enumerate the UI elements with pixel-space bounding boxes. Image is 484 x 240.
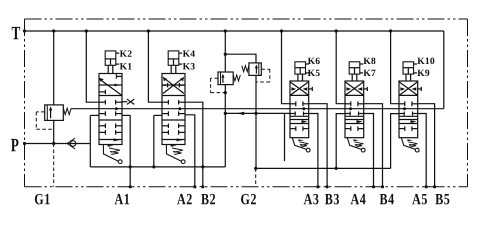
node T junction x=53.7 bbox=[52, 29, 55, 32]
port label A2 bbox=[177, 194, 192, 204]
node T junction x=24.5 bbox=[23, 29, 26, 32]
spring of RV1 bbox=[63, 108, 71, 114]
return spring bbox=[407, 139, 413, 141]
G2 drain (dashed) bbox=[255, 168, 257, 186]
node T junction x=336.2 bbox=[335, 29, 338, 32]
solenoid actuator (K2/K1) bbox=[105, 51, 116, 65]
label K9 bbox=[417, 70, 429, 76]
drain wire section 5 (closes return gallery) bbox=[391, 114, 399, 169]
label K6 bbox=[308, 58, 320, 64]
return spring bbox=[353, 139, 359, 141]
manual lever with roller bbox=[347, 138, 361, 150]
T return drop right end bbox=[443, 31, 445, 109]
relief valve RV2 (port relief, left) bbox=[218, 72, 233, 85]
wire T drop to valve 1 bbox=[86, 31, 99, 102]
label K8 bbox=[363, 58, 375, 64]
check valve (inlet) bbox=[67, 138, 75, 144]
plugged port symbol (x) at valve 1 bbox=[122, 101, 127, 103]
pilot line (dashed) of RV2 bbox=[211, 77, 218, 79]
B5 work-port riser bbox=[418, 104, 435, 187]
wire RV3 down to G2 gallery bbox=[255, 75, 257, 168]
return spring bbox=[171, 145, 177, 147]
port label B3 bbox=[325, 194, 339, 204]
valve body bbox=[399, 81, 418, 138]
subplate box section 1 bbox=[90, 114, 99, 116]
gallery line B (feed to section 3) bbox=[225, 112, 290, 114]
label K7 bbox=[363, 70, 375, 76]
wire RV2 down to return gallery bbox=[224, 85, 226, 167]
valve body section 1 bbox=[99, 74, 122, 145]
node T junction x=225.3 bbox=[224, 29, 227, 32]
B4 work-port riser bbox=[364, 104, 383, 187]
manual lever with roller bbox=[166, 145, 181, 162]
relief valve RV1 (main, at P) bbox=[45, 105, 64, 121]
label K2 bbox=[120, 50, 132, 56]
enclosure border (dash-dot) bbox=[25, 18, 468, 20]
spool position: single flow arrow bbox=[100, 79, 123, 95]
return spring bbox=[108, 145, 114, 147]
node on gallery A bbox=[178, 107, 181, 110]
P supply line bbox=[25, 143, 91, 145]
wire T drop x=225.3 through relief RV2 bbox=[224, 31, 226, 72]
port label A3 bbox=[304, 194, 319, 204]
T supply line bbox=[25, 30, 444, 32]
spool position: crossed arrows bbox=[345, 82, 364, 96]
return gallery left (under sections 1-2) bbox=[90, 166, 225, 168]
wire T drop to valve 2 bbox=[148, 31, 162, 102]
node RV2 pilot junction bbox=[224, 91, 227, 94]
bypass flow wedge bbox=[357, 120, 363, 123]
label K1 bbox=[120, 63, 132, 69]
label K3 bbox=[183, 63, 195, 69]
port label P bbox=[11, 139, 18, 151]
node T junction x=148.4 bbox=[147, 29, 150, 32]
B2 work-port riser bbox=[185, 102, 203, 187]
A3 work-port riser bbox=[309, 114, 318, 187]
node T junction x=281.5 bbox=[280, 29, 283, 32]
node P/relief junction bbox=[52, 142, 55, 145]
port label A4 bbox=[351, 194, 366, 204]
label K5 bbox=[308, 70, 320, 76]
port label B5 bbox=[435, 194, 449, 204]
spool position: crossed arrows bbox=[290, 82, 309, 96]
pilot line (dashed) of RV1 bbox=[36, 111, 44, 113]
port label G1 bbox=[35, 194, 50, 204]
solenoid actuator (K8/K7) bbox=[349, 62, 360, 74]
spring of RV2 bbox=[233, 75, 240, 81]
drain line to G1 (dashed) bbox=[53, 144, 55, 187]
B3 work-port riser bbox=[309, 104, 327, 187]
port label A1 bbox=[115, 194, 130, 204]
node on gallery A bbox=[403, 107, 406, 110]
bypass flow wedge bbox=[302, 120, 308, 123]
subplate box section 2 bbox=[154, 114, 162, 116]
bypass passage with flow wedge bbox=[177, 138, 183, 141]
valve body bbox=[345, 81, 364, 138]
port label G2 bbox=[241, 194, 256, 204]
node on gallery A bbox=[115, 107, 118, 110]
node jumper junction bbox=[224, 53, 227, 56]
valve body section 2 bbox=[162, 74, 185, 145]
port label B2 bbox=[201, 194, 215, 204]
solenoid actuator (K10/K9) bbox=[403, 62, 414, 74]
node T junction x=390.6 bbox=[389, 29, 392, 32]
closed ports, neutral position bbox=[162, 101, 168, 103]
wire T drop section 4 bbox=[336, 31, 345, 104]
solenoid actuator (K6/K5) bbox=[295, 62, 306, 74]
port label A5 bbox=[412, 194, 427, 204]
manual lever with roller bbox=[401, 138, 415, 150]
wire RV1 to P bbox=[53, 120, 55, 143]
relief valve RV3 (port relief, right) bbox=[249, 63, 261, 76]
manual lever with roller bbox=[292, 138, 306, 150]
wire T to RV1 bbox=[53, 31, 55, 105]
port label T bbox=[12, 27, 20, 39]
A4 work-port riser bbox=[364, 114, 374, 187]
solenoid actuator (K4/K3) bbox=[168, 51, 179, 65]
jumper wire to RV3 bbox=[225, 54, 256, 63]
A1 work-port riser bbox=[129, 115, 131, 186]
section 3 drain stub bbox=[284, 113, 286, 161]
closed ports bbox=[290, 103, 296, 105]
closed ports bbox=[399, 103, 405, 105]
gallery line A (bypass channel) bbox=[71, 108, 444, 110]
A5 work-port riser bbox=[418, 114, 427, 187]
label K4 bbox=[183, 50, 195, 56]
closed ports, neutral position bbox=[99, 101, 105, 103]
label K10 bbox=[417, 58, 434, 64]
wire T drop section 3 bbox=[282, 31, 291, 104]
closed ports bbox=[345, 103, 351, 105]
bypass flow wedge bbox=[411, 120, 417, 123]
bypass passage with flow wedge bbox=[114, 138, 120, 141]
drain wire section 4 bbox=[336, 114, 345, 168]
wire T drop section 5 bbox=[391, 31, 399, 104]
node T junction x=86.3 bbox=[85, 29, 88, 32]
pilot line (dashed) of RV3 bbox=[261, 68, 270, 70]
return gallery right (G2, under sections 3-5) bbox=[256, 167, 391, 169]
valve body bbox=[290, 81, 309, 138]
return spring bbox=[298, 139, 304, 141]
spool position: crossed arrows bbox=[399, 82, 418, 96]
manual lever with roller bbox=[103, 145, 118, 162]
spool position: crossed flow arrows bbox=[163, 77, 184, 93]
node on gallery A bbox=[349, 107, 352, 110]
spring of RV3 bbox=[242, 66, 249, 72]
A2 work-port riser bbox=[185, 115, 195, 187]
port label B4 bbox=[380, 194, 394, 204]
node on gallery A bbox=[302, 107, 305, 110]
